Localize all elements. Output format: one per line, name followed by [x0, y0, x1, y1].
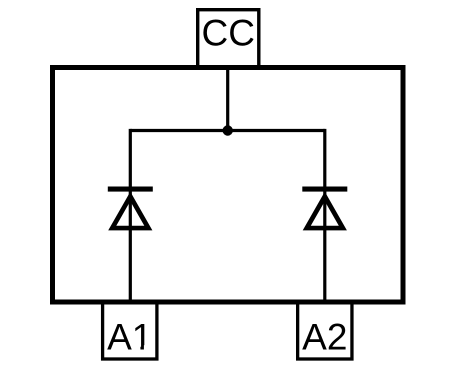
wire left branch [129, 129, 132, 303]
pin box CC [198, 10, 259, 68]
svg-text:A2: A2 [302, 316, 347, 357]
pin box A1 [103, 302, 157, 359]
junction dot [223, 125, 233, 135]
diode D1 anode triangle [112, 196, 148, 228]
pin box A2 [298, 302, 352, 359]
diode D2 cathode bar [302, 187, 347, 192]
package outline [53, 68, 404, 303]
svg-text:A1: A1 [107, 316, 152, 357]
svg-text:CC: CC [201, 13, 254, 54]
diode D1 cathode bar [108, 187, 153, 192]
diode D2 anode triangle [307, 196, 343, 228]
wire CC to junction [226, 65, 229, 131]
wire right branch [323, 129, 326, 303]
wire junction horizontal [130, 129, 324, 132]
